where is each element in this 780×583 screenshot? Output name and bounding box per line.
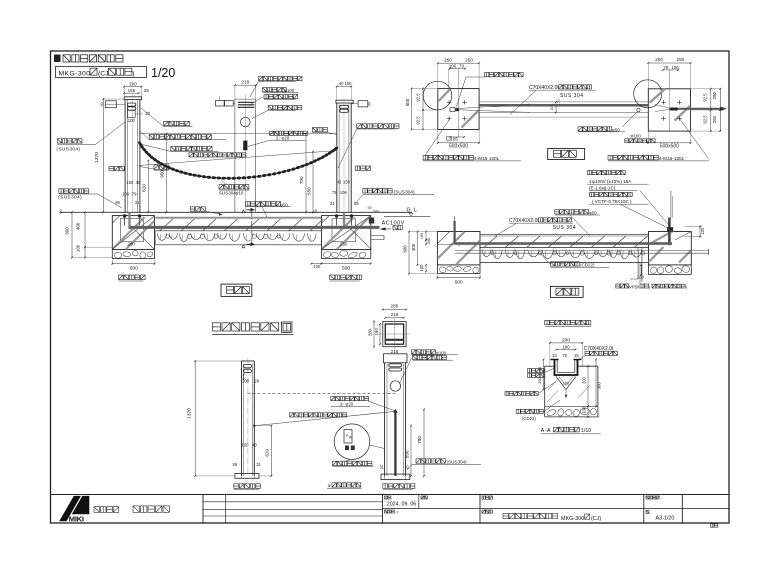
plan right centerline	[668, 70, 670, 131]
title block date cell	[385, 496, 388, 499]
svg-text:1370: 1370	[94, 152, 100, 163]
svg-text:F: F	[397, 510, 399, 514]
svg-text:200: 200	[427, 238, 431, 244]
svg-text:150: 150	[126, 180, 134, 185]
svg-text:70: 70	[557, 99, 561, 103]
left foundation rubble	[114, 252, 122, 258]
svg-text:2-: 2-	[276, 136, 280, 141]
svg-text:31: 31	[256, 462, 261, 467]
svg-text:4-M16-120L: 4-M16-120L	[659, 156, 685, 161]
svg-text:4-M16-120L: 4-M16-120L	[474, 156, 500, 161]
right foundation block (elevation)	[322, 216, 371, 250]
svg-text:400: 400	[76, 222, 81, 230]
svg-text:φ10: φ10	[236, 191, 244, 196]
sheet cell A3-1/20	[646, 511, 649, 514]
svg-text:(SUS304): (SUS304)	[56, 146, 80, 152]
A-A left dims 40/100	[543, 360, 545, 372]
label 蓋(フタ付)	[164, 121, 168, 125]
label 光電管 left	[154, 165, 158, 169]
diagonal beam line (dim view)	[255, 411, 395, 425]
svg-text:500: 500	[405, 98, 410, 106]
plan view caption box 平面図	[548, 149, 585, 160]
svg-text:200: 200	[562, 338, 570, 344]
label サブポール under left foundation	[119, 275, 124, 280]
label ベースカバー(SUS304) right elevation	[363, 189, 367, 193]
svg-text:A: A	[242, 210, 246, 216]
svg-text:35: 35	[144, 88, 150, 93]
label 電線管立上り中心	[485, 73, 489, 77]
label ケーシング(SUS304)	[57, 139, 61, 143]
plan left thick diagonals	[439, 89, 451, 101]
svg-text:φ20: φ20	[282, 136, 290, 141]
svg-text:(CD22): (CD22)	[522, 416, 536, 421]
A-A concrete block	[545, 365, 555, 367]
title block bottom row labels	[385, 510, 388, 513]
svg-text:VP50: VP50	[629, 284, 640, 289]
A-A concrete hatch lines	[548, 377, 560, 390]
catenary chain of links	[137, 141, 142, 147]
label わたり電線管(CD22) A-A	[516, 409, 520, 413]
svg-text:A-A: A-A	[541, 428, 551, 434]
section bottom dim 500	[437, 277, 480, 279]
svg-text:31: 31	[404, 464, 409, 469]
label わたり電線管(CD22)	[550, 262, 554, 266]
label 赤外線安全ビーム(安全装置) dim view	[290, 413, 294, 417]
label 水抜きソケットφ50 (section)	[555, 210, 559, 214]
svg-text:A: A	[242, 244, 246, 250]
svg-text:70: 70	[563, 353, 568, 358]
phantom pole maintenance slots	[238, 101, 255, 103]
svg-text:79: 79	[132, 192, 137, 197]
svg-text:790: 790	[299, 176, 304, 184]
dim 550 vertical right	[312, 152, 314, 213]
plan left top dims 250/250 and 106/79	[438, 62, 479, 64]
section right rubble	[649, 266, 657, 275]
svg-text:185: 185	[451, 136, 459, 141]
right foundation rubble	[323, 250, 332, 258]
svg-text:2024. 09. 06: 2024. 09. 06	[387, 502, 417, 508]
phantom pole top-left symbol	[216, 101, 225, 107]
svg-text:1/20: 1/20	[151, 66, 175, 80]
right pole buried stub	[343, 213, 345, 229]
section left dim chain	[408, 232, 410, 274]
corner mark B5	[711, 524, 714, 527]
svg-text:(E-1.6sq-1C): (E-1.6sq-1C)	[589, 186, 616, 191]
svg-text:150: 150	[242, 442, 250, 447]
title block 図面番号 cell	[646, 496, 649, 499]
diagonal safety beam line	[139, 151, 337, 166]
label 赤外線安全ビーム 2-φ20 (dim view)	[331, 397, 335, 401]
svg-text:190: 190	[129, 81, 137, 86]
svg-text:155: 155	[128, 88, 136, 93]
section caption box 断面図	[550, 286, 583, 297]
section chain thick grey	[455, 242, 672, 245]
left foundation block (elevation)	[112, 216, 154, 250]
svg-text:40: 40	[339, 81, 344, 86]
svg-text:950: 950	[159, 170, 164, 178]
svg-text:100: 100	[563, 381, 570, 386]
svg-text:200: 200	[550, 104, 554, 110]
svg-text:(SUS304): (SUS304)	[447, 460, 468, 465]
sub pole (left) body	[124, 97, 141, 100]
IR beam dashed line (dim view)	[248, 392, 396, 394]
svg-text:φ100: φ100	[284, 88, 295, 93]
svg-text:SUS 304: SUS 304	[553, 225, 577, 231]
svg-text:400: 400	[411, 243, 416, 251]
svg-text:500: 500	[455, 280, 463, 286]
title block verticals	[202, 495, 204, 524]
chain in channel thick grey	[130, 226, 380, 229]
svg-text:59: 59	[233, 462, 238, 467]
svg-text:100: 100	[419, 264, 424, 272]
svg-text:2-: 2-	[340, 402, 344, 407]
AC100V callout	[369, 218, 374, 224]
plan channel bands	[479, 101, 648, 103]
A-A right dims 200/300/100	[587, 366, 589, 406]
svg-text:190: 190	[374, 328, 379, 336]
main pole (right) body	[336, 100, 353, 103]
svg-text:31: 31	[379, 464, 384, 469]
label メインポール under right foundation	[330, 275, 335, 280]
sub pole (dim view)	[241, 361, 243, 476]
label 非常開放スイッチ right	[357, 124, 362, 129]
svg-text:φ20: φ20	[346, 402, 354, 407]
svg-text:MIKI: MIKI	[69, 515, 84, 524]
model box MKG-300型(CJタイプ)	[56, 67, 147, 78]
svg-text:106: 106	[449, 64, 457, 69]
svg-text:100: 100	[313, 264, 321, 269]
phantom pole lamp circle	[241, 117, 251, 127]
svg-text:250: 250	[465, 58, 473, 63]
section cut A-A line	[251, 212, 253, 246]
svg-text:550: 550	[306, 187, 311, 195]
svg-text:SUS 304: SUS 304	[560, 93, 584, 99]
plan left pole circle	[423, 81, 452, 110]
label ケミカルアンカーボルト 4-M16-120L (plan right)	[608, 155, 613, 160]
A-A V groove	[556, 377, 566, 390]
svg-text:500x500: 500x500	[660, 143, 679, 149]
svg-text:250: 250	[712, 115, 717, 123]
plan right bottom dim 500x500	[648, 142, 690, 144]
svg-text:218: 218	[241, 80, 249, 86]
svg-text:100: 100	[637, 275, 645, 280]
label 反射/プレート付	[171, 146, 176, 151]
label メインポール (dim view)	[383, 484, 388, 489]
label 電源引き込み線 1φ100V(±10%)15A (E-1.6sq-1C)	[587, 171, 591, 175]
plan right drain socket circle	[637, 108, 640, 111]
svg-text:218: 218	[391, 349, 399, 354]
svg-text:31: 31	[330, 201, 335, 206]
svg-text:40: 40	[136, 180, 141, 185]
svg-text:MKG-300: MKG-300	[59, 70, 91, 77]
dim 500 under left foundation	[112, 263, 154, 265]
label 非常開放スイッチ (dim view)	[333, 461, 337, 465]
phantom pole dim 218	[235, 84, 256, 86]
svg-text:15: 15	[574, 353, 579, 358]
dims 200/70 on channel	[555, 102, 557, 113]
svg-text:280: 280	[367, 328, 372, 336]
svg-text:60: 60	[59, 209, 63, 213]
label ケミカルアンカーボルト 4-M16-120L (plan left)	[423, 155, 428, 160]
label 動作表示灯φ100 透明アクリル板	[412, 350, 416, 354]
svg-text:40: 40	[252, 442, 257, 447]
svg-text:G L: G L	[407, 207, 418, 213]
svg-text:500: 500	[130, 266, 138, 272]
svg-text:280: 280	[373, 210, 379, 214]
caption クサリ収納溝詳細図	[545, 320, 550, 325]
svg-text:50: 50	[368, 102, 372, 106]
svg-text:100: 100	[581, 406, 586, 414]
main pole base plate	[381, 474, 410, 479]
dim 620 vertical left	[147, 161, 149, 213]
svg-text:A3-1/20: A3-1/20	[656, 515, 675, 521]
label ベースカバー(SUS304) dim view	[416, 459, 420, 463]
svg-text:150: 150	[345, 81, 353, 86]
svg-text:500: 500	[342, 266, 350, 272]
section right foundation	[649, 232, 692, 265]
svg-text:※100: ※100	[630, 134, 641, 139]
plan wires leaving centre	[459, 104, 531, 109]
dim 790 vertical right	[305, 134, 307, 213]
dim 1370 sub pole height	[102, 99, 104, 212]
svg-text:92.5: 92.5	[703, 115, 708, 124]
svg-text:28: 28	[254, 379, 259, 384]
plan right footing square	[648, 89, 690, 131]
sub pole cap slots	[127, 103, 136, 106]
labels left of A-A	[528, 369, 532, 373]
phantom pole beam unit rod	[243, 141, 247, 151]
svg-text:218: 218	[391, 312, 399, 317]
company name 株式会社 三木製作所	[94, 507, 100, 513]
label 水抜きVP50暗渠	[616, 284, 620, 288]
svg-text:MKG-300: MKG-300	[561, 516, 584, 522]
label ベースカバー(SUS304) left	[59, 189, 63, 193]
svg-text:(SUS304): (SUS304)	[58, 195, 82, 201]
svg-text:100: 100	[420, 233, 424, 239]
svg-text:): )	[132, 70, 134, 77]
svg-text:300: 300	[597, 382, 602, 390]
right foundation pedestal	[332, 219, 355, 242]
label 水抜きソケットφ50 (plan)	[578, 127, 582, 131]
dim 120 right	[685, 226, 702, 228]
plan left bottom dims D185 500x500	[451, 136, 465, 138]
main pole top view square	[383, 322, 406, 347]
title block top line	[51, 494, 730, 496]
svg-text:79: 79	[663, 65, 668, 70]
sub pole hook box	[128, 110, 136, 117]
title block mark	[54, 55, 61, 63]
main pole flag symbol	[358, 101, 368, 107]
sub pole top dims 190/155/35	[124, 86, 141, 88]
svg-text:92.5: 92.5	[416, 93, 421, 102]
svg-text:106: 106	[340, 190, 348, 195]
svg-text:280: 280	[340, 242, 348, 247]
label メンテナンス扉	[268, 106, 272, 110]
svg-text:620: 620	[265, 449, 270, 457]
plan left footing square	[438, 89, 479, 130]
label 片勾配 with arrow	[190, 207, 194, 211]
section trench	[480, 233, 649, 235]
main pole inner shaft	[394, 411, 396, 476]
MIKI logo	[59, 496, 81, 521]
svg-text:1370: 1370	[187, 408, 193, 419]
section right power conduit	[668, 218, 671, 246]
svg-text:106: 106	[671, 65, 679, 70]
plan left center conduit box	[450, 108, 455, 112]
plan right right-side dims 92.5/92.5 250/250	[710, 89, 712, 110]
svg-text:790: 790	[417, 436, 422, 444]
svg-text:106: 106	[122, 192, 130, 197]
dim 100 drain	[640, 265, 642, 275]
caption 本体ポール寸法図	[212, 323, 220, 331]
A-A channel U section	[555, 360, 578, 376]
svg-text:15: 15	[552, 353, 557, 358]
svg-text:200: 200	[581, 376, 586, 384]
svg-text:φ100V (±10%) 15A: φ100V (±10%) 15A	[592, 179, 632, 184]
plan left left-side dims 500 / 92.5x2	[411, 89, 413, 130]
section trench stones	[482, 250, 491, 257]
title block row lines	[383, 508, 730, 510]
left elevation dim chain 500/400/100	[71, 212, 73, 257]
label 受光側 right	[355, 166, 360, 171]
main pole cap slots	[340, 105, 349, 108]
label 投光側 left	[109, 166, 114, 171]
svg-text:40: 40	[337, 179, 342, 184]
svg-text:(CJ): (CJ)	[591, 516, 601, 522]
svg-text:100: 100	[562, 344, 570, 349]
section trench hatch	[484, 236, 497, 247]
svg-text:※: ※	[327, 483, 331, 488]
svg-text:60: 60	[314, 209, 318, 213]
SW detail circle	[334, 424, 370, 460]
label 赤外線安全ビーム 2-φ20	[270, 131, 274, 135]
label サブポール (dim view)	[234, 484, 239, 489]
elevation ground line GL	[60, 211, 412, 213]
svg-text:75: 75	[332, 190, 337, 195]
right foundation anchor bolts	[335, 214, 338, 217]
svg-text:79: 79	[459, 64, 464, 69]
svg-text:(CD22): (CD22)	[580, 263, 595, 268]
elevation view caption box 立面図	[221, 284, 252, 296]
svg-text:280: 280	[128, 242, 136, 247]
drawing frame	[51, 51, 730, 523]
left foundation anchor bolts	[123, 214, 126, 217]
A-A detail dims top	[550, 342, 582, 344]
chain trench channel (elevation)	[155, 216, 321, 218]
section CD22 conduit	[455, 249, 708, 251]
left pole buried stub	[128, 213, 130, 229]
plan right wavy wires	[655, 105, 670, 109]
plan right thick diagonals	[650, 89, 665, 103]
svg-text:620: 620	[142, 184, 147, 192]
svg-text:100: 100	[76, 244, 81, 252]
plan right anchor cross marks	[661, 101, 665, 103]
plan left center lines	[458, 69, 460, 137]
top view dims	[383, 309, 406, 311]
main pole top dims 40/150	[337, 86, 351, 88]
svg-text:φ50: φ50	[589, 210, 597, 215]
svg-text:150: 150	[343, 179, 351, 184]
plan chain pull arrow	[678, 108, 724, 110]
label メイン・サブ信号線 (VCTF-0.75X10C)	[590, 192, 594, 196]
svg-text:92.5: 92.5	[703, 93, 708, 102]
title チェーンゲート	[63, 55, 70, 62]
label 光電管 right	[312, 128, 316, 132]
label 透明アクリル板	[264, 95, 268, 99]
svg-text:1/10: 1/10	[581, 428, 591, 434]
plan right chain end links	[670, 107, 675, 110]
svg-text:31: 31	[135, 200, 140, 205]
svg-text:59: 59	[115, 200, 120, 205]
plan right pole circle	[634, 80, 662, 108]
svg-text:250: 250	[655, 57, 663, 62]
svg-text:( VCTF-0.75X10C ): ( VCTF-0.75X10C )	[592, 199, 632, 204]
svg-text:92.5: 92.5	[416, 116, 421, 125]
dim 1370 (dim view)	[194, 361, 196, 476]
plan left anchor cross marks	[447, 101, 451, 103]
svg-text:280: 280	[391, 303, 399, 308]
svg-text:100: 100	[128, 118, 136, 123]
section left rubble	[439, 266, 447, 274]
A-A rubble	[546, 409, 557, 417]
svg-text:SUS304: SUS304	[219, 191, 236, 196]
dims under right foundation	[312, 263, 322, 265]
title block 工事名 cell	[482, 496, 485, 499]
label 夜間照明灯φ100	[263, 88, 267, 92]
svg-text:(CJ: (CJ	[98, 70, 109, 77]
svg-text:550: 550	[404, 450, 409, 458]
dims 790 550 (dim view)	[423, 410, 425, 476]
svg-text:59: 59	[354, 201, 359, 206]
label 水抜きソケットφ50 (elevation)	[246, 202, 250, 206]
label 動作表示灯(赤・青)	[259, 77, 263, 81]
section VP50 drain	[637, 248, 639, 279]
svg-text:250: 250	[444, 58, 452, 63]
dim 950 vertical	[165, 134, 167, 213]
label 繋留チェーン SUS304φ10	[219, 185, 223, 189]
section left foundation	[437, 232, 480, 265]
IR beam line between poles	[139, 133, 337, 135]
main pole lamp circle (dim view)	[390, 381, 400, 391]
phantom main pole front outline (center)	[234, 99, 236, 212]
sub pole flood light flag symbol	[106, 101, 117, 108]
drawing name チェーンゲート詳細図 MKG-300型(CJ)	[503, 513, 508, 518]
sub pole base plate	[235, 474, 259, 479]
label チェーンフック(衝撃緩衝付)	[149, 135, 154, 140]
svg-text:100: 100	[242, 379, 250, 384]
svg-text:500x500: 500x500	[449, 143, 468, 149]
svg-text:250: 250	[712, 91, 717, 99]
svg-text:120: 120	[700, 227, 705, 235]
svg-text:250: 250	[677, 57, 685, 62]
left foundation pedestal	[120, 219, 143, 242]
label 赤外線安全ビーム(安全装置) diagonal	[189, 153, 193, 157]
svg-text:500: 500	[402, 245, 407, 253]
main pole (dim view)	[384, 354, 408, 363]
svg-text:50: 50	[368, 206, 372, 210]
section left conduit riser	[454, 221, 456, 245]
trench stones row (elevation)	[157, 233, 166, 240]
trench hatch diagonals	[160, 219, 173, 231]
svg-text:500: 500	[65, 227, 70, 235]
plan right top dims	[648, 62, 690, 64]
